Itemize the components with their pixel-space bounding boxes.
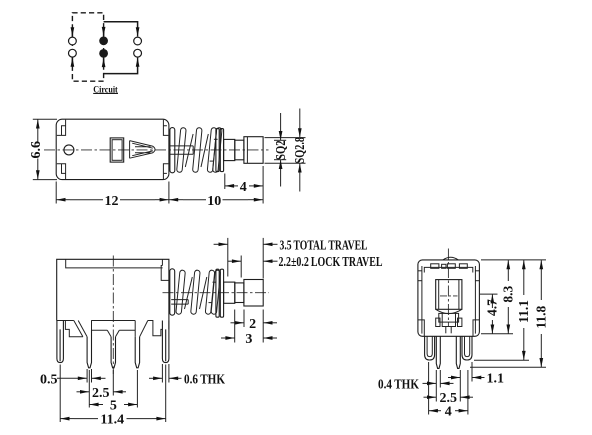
spring shaft bar inside top view <box>169 146 193 154</box>
common pole B1 filled dot <box>99 36 108 45</box>
dim 3.5 TOTAL TRAVEL <box>214 243 228 245</box>
bottom corner tabs <box>418 320 480 336</box>
svg-text:0.5: 0.5 <box>40 372 58 387</box>
pin P2 <box>87 330 91 368</box>
corner detail top-left <box>57 120 66 136</box>
dim 2.5 <box>77 391 90 393</box>
pedestal legs <box>445 327 447 334</box>
arrow into terminal A1 <box>71 28 73 37</box>
washer disc top view <box>216 129 219 172</box>
centerline middle view horizontal <box>163 292 270 294</box>
dim 11.4 <box>60 418 74 420</box>
dim 0.6 THK <box>149 377 162 379</box>
spring seat collar top view <box>170 128 175 173</box>
svg-text:4: 4 <box>240 180 247 195</box>
foot right <box>458 318 462 326</box>
plunger shaft segment 1 middle view <box>224 282 235 303</box>
foot left <box>436 318 440 326</box>
bottom profile right <box>140 321 169 337</box>
right view body outline <box>418 260 480 336</box>
svg-text:3: 3 <box>245 332 252 347</box>
svg-text:11.8: 11.8 <box>534 306 549 329</box>
dim 11.1 <box>523 260 525 295</box>
center tick in square <box>440 295 458 297</box>
svg-text:6.6: 6.6 <box>29 141 44 159</box>
rivet hole circle <box>64 145 74 155</box>
svg-text:0.4 THK: 0.4 THK <box>378 377 419 392</box>
circuit diagram dashed enclosure <box>72 13 103 81</box>
dim SQ2 <box>280 113 282 140</box>
dim 1.1 <box>448 377 460 379</box>
dim 11.8 <box>540 260 542 300</box>
plunger shaft segment 2 middle view <box>235 283 244 303</box>
bottom center block <box>91 321 135 337</box>
dim 2.2±0.2 LOCK TRAVEL <box>228 260 242 262</box>
inner side walls <box>421 266 423 334</box>
centerline middle view vertical <box>112 256 114 375</box>
terminal A1 open circle <box>69 37 77 45</box>
wire top solid <box>104 22 138 29</box>
dim 3.5 total travel ext lines <box>227 238 229 277</box>
plunger square <box>436 280 462 310</box>
window frame inner <box>112 140 122 161</box>
svg-text:3.5 TOTAL TRAVEL: 3.5 TOTAL TRAVEL <box>280 238 368 253</box>
svg-text:4.7: 4.7 <box>485 299 500 316</box>
button dome top <box>443 257 458 260</box>
body right bracket <box>161 266 169 281</box>
terminal A2 open circle <box>69 49 77 57</box>
dim 10 <box>169 199 183 201</box>
wire bottom solid <box>104 67 138 74</box>
washer disc middle view <box>216 269 219 317</box>
svg-text:2.2±0.2 LOCK TRAVEL: 2.2±0.2 LOCK TRAVEL <box>279 255 383 270</box>
narrow pin left <box>436 336 440 368</box>
narrow pin right <box>456 336 460 368</box>
dim 2 <box>231 322 244 324</box>
dim 8.3 <box>507 260 509 281</box>
pin P5 outer right <box>162 321 169 363</box>
arrow into terminal A2 <box>71 58 73 67</box>
arrow into terminal C2 <box>137 58 139 67</box>
right view pin ext lines <box>435 370 437 402</box>
spring coils middle view <box>176 270 221 315</box>
dim 2.2 lock travel ext line <box>240 256 242 278</box>
dim 2 ext lines <box>243 310 245 328</box>
window frame outer <box>110 138 124 162</box>
svg-text:SQ2.8: SQ2.8 <box>292 137 307 164</box>
top tabs row <box>431 264 439 269</box>
pedestal <box>439 313 459 322</box>
centerline right view <box>447 249 449 328</box>
pin3 funnel <box>107 330 119 337</box>
right view ext lines horizontal <box>481 259 546 261</box>
dim 6.6 extension lines <box>33 118 57 120</box>
dim 4 right view <box>429 410 441 412</box>
terminal C2 open circle <box>134 49 142 57</box>
dim 12 / 10 extension lines <box>55 182 57 204</box>
svg-text:2: 2 <box>249 317 256 332</box>
svg-text:4: 4 <box>445 405 452 420</box>
svg-text:11.4: 11.4 <box>100 413 124 428</box>
plunger button top view <box>244 137 263 164</box>
inner top line <box>424 267 473 272</box>
under arc <box>436 309 462 313</box>
svg-text:5: 5 <box>110 399 117 414</box>
bottom profile left <box>57 321 87 337</box>
common pole B2 filled dot <box>99 49 108 58</box>
body top inner wall <box>66 259 163 268</box>
svg-text:12: 12 <box>105 194 119 209</box>
svg-text:11.1: 11.1 <box>516 300 531 323</box>
U pin right <box>462 336 472 360</box>
svg-text:0.6 THK: 0.6 THK <box>184 372 225 387</box>
svg-text:1.1: 1.1 <box>487 372 505 387</box>
dim 4.7 <box>491 294 493 308</box>
dim SQ2.8 <box>299 109 301 138</box>
plunger shaft segment 2 top view <box>235 140 244 160</box>
terminal C1 open circle <box>134 37 142 45</box>
svg-text:10: 10 <box>207 194 221 209</box>
middle view body outline <box>57 259 169 320</box>
dim SQ2 extension lines <box>265 137 306 139</box>
centerline top view <box>44 149 269 151</box>
pin P3 <box>111 337 115 368</box>
pointer wedge <box>130 141 155 159</box>
dim 3 <box>221 337 235 339</box>
corner detail top-right <box>163 120 168 136</box>
pin P1 outer left <box>57 321 64 363</box>
dim 6.6 <box>37 119 39 141</box>
spring coils top view <box>177 127 223 172</box>
svg-text:SQ2: SQ2 <box>273 140 288 160</box>
dim 5 <box>90 404 104 406</box>
pin P4 <box>135 337 139 368</box>
arrow into common B1 <box>103 28 105 37</box>
arrow into terminal C1 <box>137 28 139 37</box>
spring seat collar middle view <box>170 269 175 315</box>
plunger button middle view <box>244 280 263 307</box>
svg-text:8.3: 8.3 <box>501 286 516 303</box>
pin extension lines below <box>59 365 61 423</box>
svg-text:2.5: 2.5 <box>92 386 110 401</box>
U pin left <box>425 336 435 360</box>
corner detail bottom-left <box>57 164 66 179</box>
dim 4 extension line <box>224 174 226 190</box>
plunger shaft segment 1 top view <box>224 139 235 160</box>
corner detail bottom-right <box>163 164 168 179</box>
top view body outline <box>56 119 169 179</box>
lock bar inside spring <box>171 300 188 305</box>
dim 2.5 right view <box>424 396 437 398</box>
arrow into common B2 <box>103 58 105 67</box>
dim 4 <box>225 185 238 187</box>
dim 12 <box>56 199 70 201</box>
